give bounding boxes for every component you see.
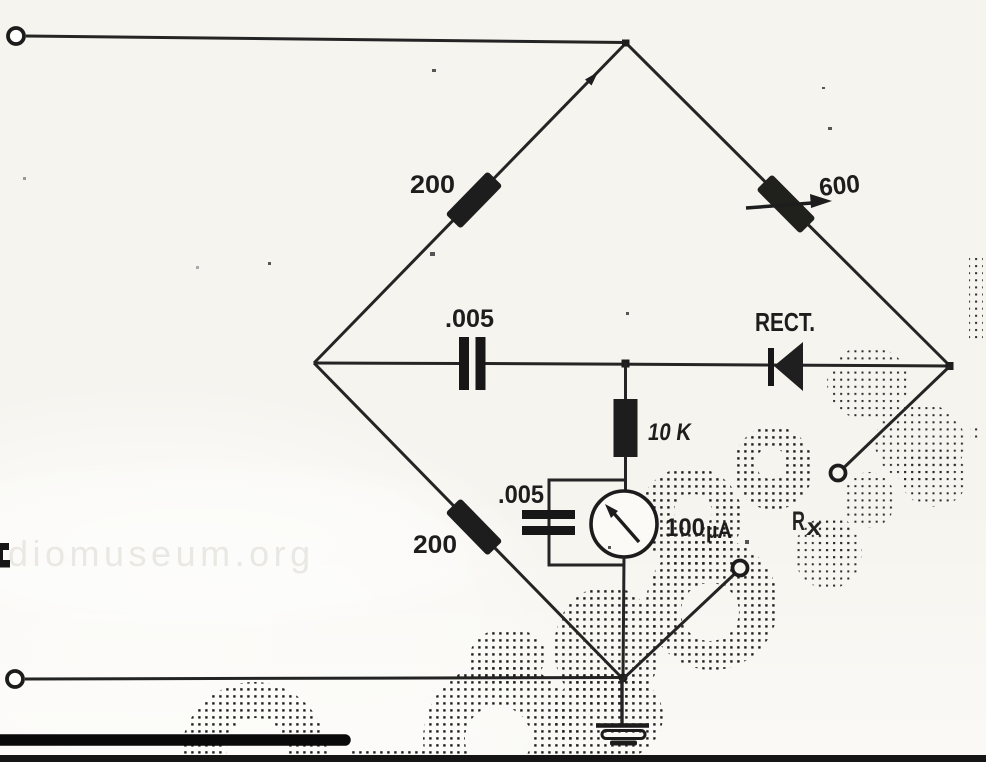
node junction mid [622,360,630,368]
arrowhead on upper-left arm [585,72,598,86]
dot ring right of bottom node [646,538,778,670]
svg-text:200: 200 [413,531,457,559]
wire middle horizontal left segment [314,362,459,366]
terminal circle top-left [8,28,24,44]
wire meter to bottom node [623,557,624,679]
wire middle horizontal right segment [486,364,951,367]
svg-text:.005: .005 [445,305,494,333]
dot column right edge upper [969,258,983,340]
svg-text:RECT.: RECT. [755,307,815,337]
meter needle [611,510,639,542]
dot ring bottom left [181,682,327,762]
svg-text:µA: µA [706,518,732,543]
wire down from mid node [624,363,627,400]
svg-text:10 K: 10 K [646,419,693,446]
dot blob left of bottom node [470,628,546,684]
potentiometer 600 arrow [746,203,812,208]
resistor 10K [614,399,638,457]
svg-text:R: R [792,506,805,536]
paper specks [23,69,832,549]
svg-text:200: 200 [410,171,455,199]
wire bottom input [25,678,623,680]
letter c fragment at left edge [0,543,10,568]
resistor R 200 lower [446,498,503,556]
terminal circle mid-right [733,561,748,576]
node junction bottom [619,674,628,683]
resistor R 200 upper [446,171,503,229]
dot blob below Rx terminal [843,472,895,528]
wire bridge arm lower-left [314,363,623,679]
wire parallel capacitor box [549,480,625,565]
svg-text:100: 100 [665,514,705,542]
dot blob around ground [553,670,663,762]
capacitor .005 middle plates [459,337,469,390]
dot ring left of Rx [733,426,813,510]
heavy black bar bottom-left [0,734,345,746]
ground [596,726,649,746]
terminal circle Rx [831,466,846,481]
terminal circle bottom-left [7,671,23,687]
node junction top [622,40,630,47]
dot blob above bottom node [554,586,660,710]
wire right node to Rx terminal [844,366,951,468]
wire bottom node to terminal [623,574,735,679]
wire bridge arm upper-left [314,43,626,363]
dot ring around 100uA [638,467,742,567]
dot blob beside diode [827,346,909,420]
node junction right [946,362,954,370]
thin black rule along bottom [0,755,986,762]
dot blob right mid [875,403,965,483]
svg-text:.005: .005 [498,481,544,509]
capacitor .005 lower plates [522,510,575,519]
dot blob right lower [901,449,967,507]
diode RECT. [768,348,774,386]
meter 100uA circle [591,491,657,557]
svg-text:600: 600 [818,170,862,202]
sparse dots bottom edge [352,747,428,762]
dot ring bottom center-left [423,662,577,762]
halftone watermark blobs [181,258,983,762]
dot trail bottom of Rx blob [818,516,854,560]
potentiometer 600 body [756,174,815,233]
wire bottom node to ground [620,679,623,724]
svg-text:diomuseum.org: diomuseum.org [8,533,315,574]
wire resistor to meter [624,456,627,492]
dot blob below Rx [794,517,862,589]
wire bridge arm upper-right [626,43,950,366]
wire top input [26,36,626,43]
